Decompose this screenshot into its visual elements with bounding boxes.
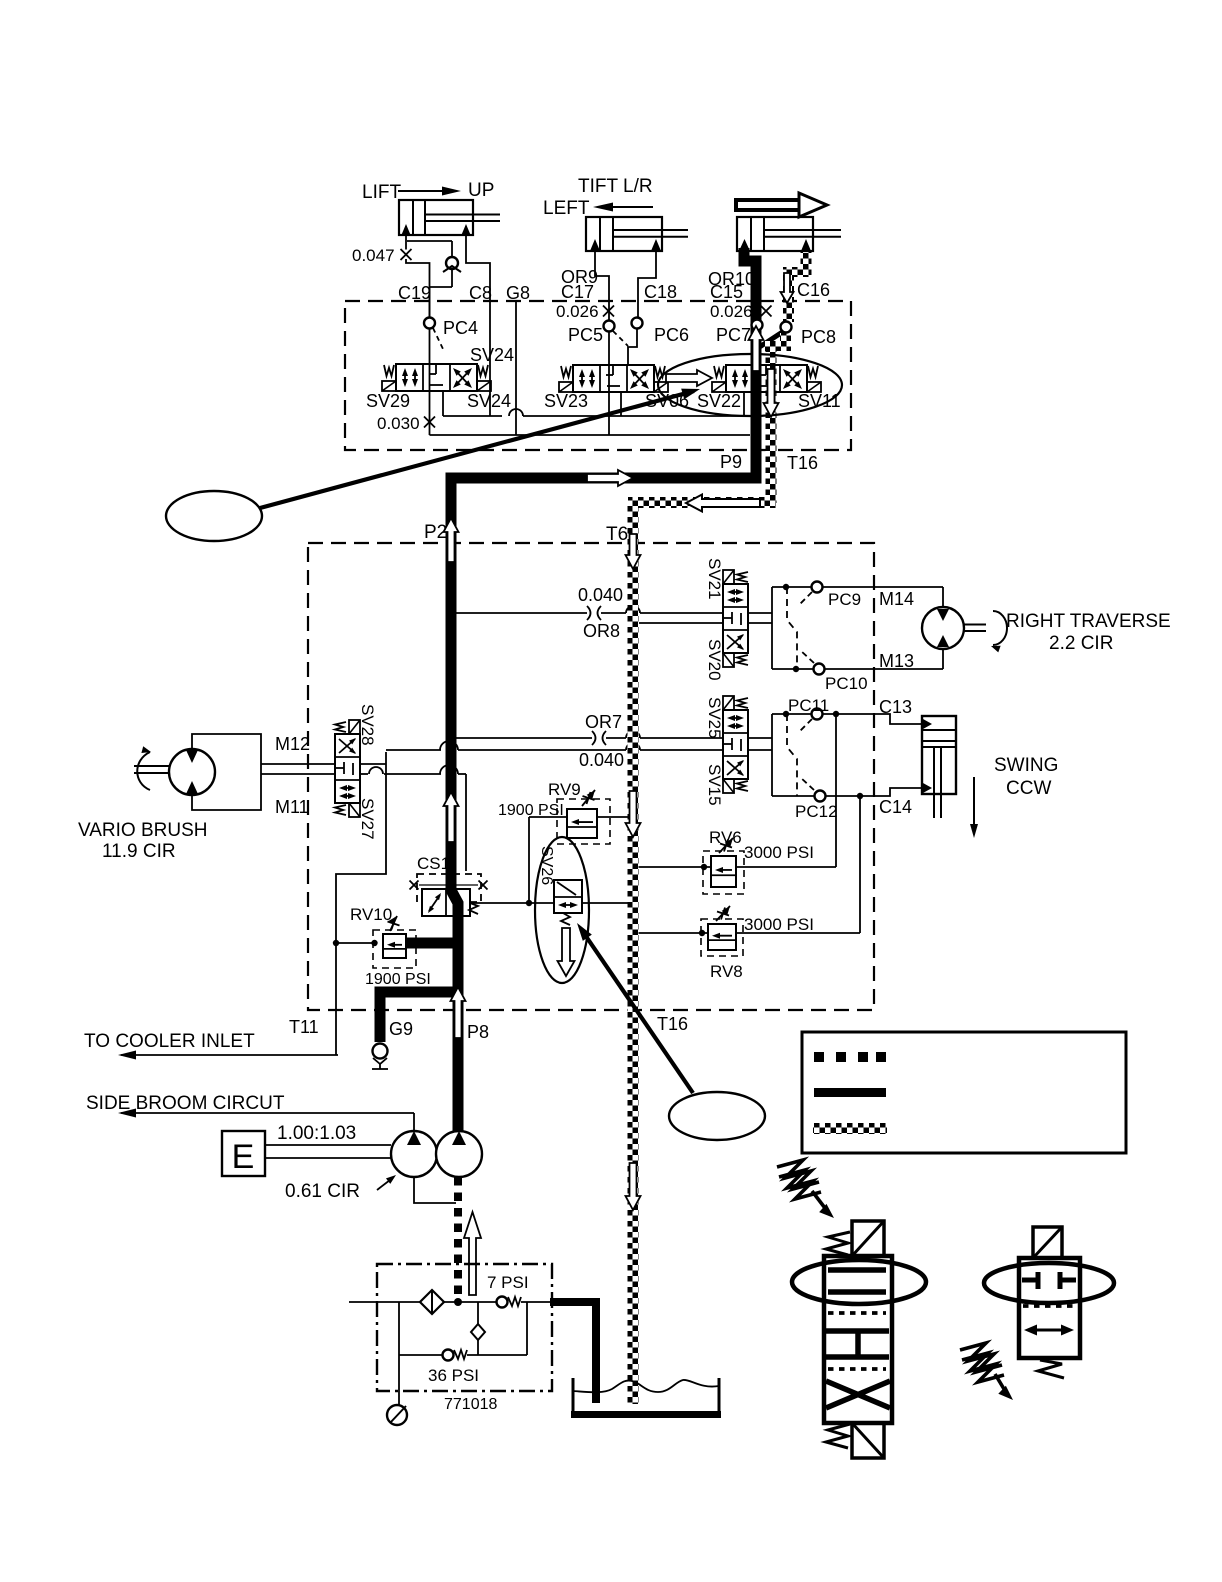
svg-text:P8: P8 <box>467 1022 489 1042</box>
flow arrow P2 up <box>444 518 459 562</box>
svg-text:C15: C15 <box>710 282 743 302</box>
solenoid valve SV22/SV11 <box>726 365 807 392</box>
svg-text:2.2 CIR: 2.2 CIR <box>1049 633 1113 654</box>
svg-text:3000 PSI: 3000 PSI <box>744 843 814 862</box>
wire P2 to OR8 <box>456 612 587 614</box>
pointer 0.61 CIR <box>377 1180 390 1190</box>
solenoid valve SV28/SV27 <box>335 734 360 803</box>
svg-text:T11: T11 <box>289 1017 319 1037</box>
tank reservoir <box>572 1378 575 1416</box>
svg-text:T16: T16 <box>787 453 818 473</box>
svg-text:0.040: 0.040 <box>578 585 623 605</box>
svg-text:C18: C18 <box>644 282 677 302</box>
wire SV21 to PC9/PC10 block <box>748 612 772 614</box>
gauge G9 <box>373 1044 388 1059</box>
motor VARIO BRUSH <box>169 749 215 795</box>
wire M14 line <box>772 586 943 588</box>
svg-text:36 PSI: 36 PSI <box>428 1366 479 1385</box>
wire PC block left vertical (traverse) <box>771 587 773 669</box>
wire RV9 right to T6 <box>597 816 633 818</box>
wire RV9 drain drop <box>528 817 530 903</box>
callout ellipse lower <box>669 1092 765 1140</box>
cylinder sweep (right) <box>737 217 813 251</box>
node suction junction <box>454 1298 462 1306</box>
wire PC5 down through SV23 to gallery <box>608 332 610 436</box>
thick filter outlet to tank <box>550 1302 596 1403</box>
lightning bolt lower <box>960 1343 1002 1372</box>
bypass line 36 PSI <box>399 1354 443 1356</box>
svg-text:SV24: SV24 <box>467 391 511 411</box>
filter <box>420 1290 444 1314</box>
manifold pressure gallery <box>430 434 751 436</box>
svg-text:OR7: OR7 <box>585 712 622 732</box>
svg-text:C13: C13 <box>879 697 912 717</box>
svg-text:SV15: SV15 <box>705 764 724 806</box>
wire PC4 down through SV24 to gallery <box>429 329 431 436</box>
ellipse highlight sample valve large <box>792 1260 926 1304</box>
pump 2 (main) <box>436 1131 482 1177</box>
check valve PC8 <box>781 322 792 333</box>
sample valve small (detent) <box>1033 1227 1062 1258</box>
svg-text:RV6: RV6 <box>709 828 742 847</box>
orifice OR8 0.040 <box>587 606 591 620</box>
thick G9 branch <box>380 992 458 1042</box>
svg-text:OR8: OR8 <box>583 621 620 641</box>
wire cylinder2 left port to C17 <box>595 251 609 320</box>
svg-text:TO COOLER INLET: TO COOLER INLET <box>84 1031 255 1052</box>
svg-text:1900 PSI: 1900 PSI <box>498 802 564 819</box>
svg-text:PC10: PC10 <box>825 674 868 693</box>
legend pilot line sample <box>814 1052 824 1062</box>
relief valve RV10 <box>383 934 406 958</box>
wire C19 cylinder1 left port to orifice 0.047 <box>405 236 407 250</box>
wire SV28 return line to SV25 <box>386 749 441 751</box>
svg-text:SV11: SV11 <box>798 391 841 411</box>
svg-text:RV8: RV8 <box>710 962 743 981</box>
wire SIDE BROOM tap <box>121 1112 414 1114</box>
checkered line PC8 to manifold exit <box>780 333 791 346</box>
wire vario motor M12 line <box>261 763 335 765</box>
flow arrow P9 up <box>749 326 764 371</box>
callout pointer to SV22 <box>260 391 694 508</box>
svg-text:0.030: 0.030 <box>377 414 420 433</box>
svg-text:PC6: PC6 <box>654 325 689 345</box>
wire PC6 pilot to SV23 <box>628 329 637 366</box>
orifice OR7 0.040 <box>592 731 596 745</box>
svg-text:SV24: SV24 <box>470 345 514 365</box>
svg-text:TIFT L/R: TIFT L/R <box>578 176 653 197</box>
port arrow cylinder2 left <box>590 239 600 251</box>
thick main pressure line P9/P2/P8 <box>451 248 756 1133</box>
node PC10 junction <box>793 666 799 672</box>
legend pressure line sample <box>814 1088 886 1097</box>
manifold assembly dashed enclosure (valve block SV29..SV11) <box>345 301 851 450</box>
svg-text:0.61 CIR: 0.61 CIR <box>285 1181 360 1202</box>
ellipse highlight SV22/SV11 <box>658 354 842 416</box>
wire OR8 to SV21 with hop over T6 <box>601 612 626 614</box>
port arrow cylinder1 right <box>461 224 471 236</box>
wire M13 line <box>772 668 943 670</box>
node RV9 drain junction <box>526 900 532 906</box>
wire RV8 line from T6 <box>638 932 708 934</box>
port arrow cylinder2 right <box>651 239 661 251</box>
wire side broom drop to pump1 <box>413 1113 415 1131</box>
check valve 36 PSI <box>443 1350 454 1361</box>
svg-text:1900 PSI: 1900 PSI <box>365 971 431 988</box>
check valve PC4 <box>424 318 435 329</box>
wire SV23 drain to tank gallery <box>620 392 622 416</box>
svg-text:M14: M14 <box>879 589 914 609</box>
node RV8 left <box>699 930 705 936</box>
node C13 junction <box>783 711 789 717</box>
wire OR7 to SV25 with hop over T6 <box>606 737 626 739</box>
wire C14 line <box>772 788 922 796</box>
svg-text:CCW: CCW <box>1006 778 1051 799</box>
thick PC8 link <box>758 331 784 348</box>
svg-text:M11: M11 <box>275 797 309 817</box>
svg-text:SV26: SV26 <box>538 846 555 885</box>
flow arrow tank return down <box>626 1163 641 1210</box>
wire vario motor M11 line <box>261 773 335 775</box>
node C13 to RV6 junction <box>833 711 839 717</box>
svg-text:SWING: SWING <box>994 755 1058 776</box>
svg-text:M12: M12 <box>275 734 310 754</box>
solenoid valve SV21/SV20 <box>723 584 748 653</box>
port arrow cylinder3 left <box>739 239 750 251</box>
orifice 0.026 on C17 <box>603 306 614 317</box>
svg-text:RIGHT TRAVERSE: RIGHT TRAVERSE <box>1006 611 1171 632</box>
wire pump1 case drain to suction <box>414 1177 456 1203</box>
svg-text:0.026: 0.026 <box>556 302 599 321</box>
check valve PC6 <box>632 318 643 329</box>
shaft vario <box>134 765 169 767</box>
svg-text:PC8: PC8 <box>801 327 836 347</box>
motor RIGHT TRAVERSE <box>922 607 964 649</box>
wire cylinder2 right port to C18 <box>638 251 656 317</box>
gearbox E <box>222 1131 265 1176</box>
check valve PC7 <box>752 320 763 331</box>
checkered return header to T6 <box>628 497 776 508</box>
wire RV6 line from T6 <box>638 866 711 868</box>
legend box <box>802 1032 1126 1153</box>
wire SV28 branch down to cooler tie <box>336 752 386 1055</box>
node RV10 tee <box>333 940 339 946</box>
wire G8 drop <box>515 301 517 435</box>
relief valve RV6 <box>711 856 736 887</box>
wire C19 into manifold to PC4 <box>429 287 431 318</box>
svg-text:G9: G9 <box>389 1019 413 1039</box>
wire C13 branch down to RV6 <box>835 714 837 867</box>
wire C13 line <box>772 714 922 724</box>
flow arrow T6 down <box>626 534 641 569</box>
pump 1 (side broom) <box>391 1131 437 1177</box>
legend return line sample <box>813 1123 887 1134</box>
relief valve RV9 <box>567 809 597 838</box>
orifice 0.047 <box>401 249 412 260</box>
svg-text:E: E <box>232 1138 255 1176</box>
motor frame vario <box>192 734 261 810</box>
check valve PC10 <box>814 664 825 675</box>
svg-text:C8: C8 <box>469 283 492 303</box>
svg-text:C17: C17 <box>561 282 594 302</box>
ellipse highlight sample valve small <box>984 1263 1114 1303</box>
svg-text:SV23: SV23 <box>544 391 588 411</box>
wire P2 to OR7 <box>456 737 592 739</box>
svg-text:PC4: PC4 <box>443 318 478 338</box>
wire filter to check <box>444 1301 497 1303</box>
wire RV8 to C14 branch <box>736 932 860 934</box>
svg-text:P2: P2 <box>424 522 447 543</box>
svg-text:T6: T6 <box>606 524 628 545</box>
wire check to outlet <box>521 1301 552 1303</box>
flow arrow T16 down (manifold) <box>764 369 779 417</box>
wire filter left drain <box>398 1302 400 1405</box>
svg-text:G8: G8 <box>506 283 530 303</box>
svg-text:C16: C16 <box>797 280 830 300</box>
wire CS1 out to SV26 and T6 <box>470 902 633 904</box>
cylinder SWING <box>922 716 956 794</box>
thick arrow above cylinder3 <box>734 198 799 212</box>
svg-text:0.040: 0.040 <box>579 750 624 770</box>
wire CS1 pilot drop <box>465 774 467 871</box>
flow arrow return left (checkered) <box>686 495 760 512</box>
svg-text:SV22: SV22 <box>697 391 741 411</box>
flow arrow SV26 vent <box>558 928 575 976</box>
check valve PC9 <box>812 582 823 593</box>
suction line dotted <box>454 1177 462 1299</box>
flow arrow thick line right <box>587 470 633 486</box>
solenoid valve SV29/SV24 <box>396 364 477 391</box>
orifice 0.030 on PC4 drain <box>424 417 435 428</box>
sample valve large (solenoid operated) <box>852 1221 884 1256</box>
wire SV25 to PC11/PC12 block <box>748 737 772 739</box>
wire motor frame <box>942 587 944 608</box>
wire orifice to C19 line <box>406 259 430 318</box>
solenoid valve SV23/SV06 <box>573 365 654 392</box>
svg-text:PC12: PC12 <box>795 802 838 821</box>
svg-text:M13: M13 <box>879 651 914 671</box>
wire TO COOLER INLET <box>121 1054 338 1056</box>
svg-text:771018: 771018 <box>444 1396 497 1413</box>
wire cylinder1 right port C8 <box>466 236 490 416</box>
svg-text:SV21: SV21 <box>705 558 724 600</box>
flow arrow P8 up <box>451 987 466 1038</box>
svg-text:0.026: 0.026 <box>710 302 753 321</box>
pilot dashes PC9/PC10 <box>787 587 797 669</box>
svg-text:P9: P9 <box>720 452 742 472</box>
svg-text:SV27: SV27 <box>358 798 377 840</box>
flow arrow C16 down <box>781 273 794 303</box>
check valve PC12 <box>815 791 826 802</box>
lightning bolt upper <box>777 1160 819 1189</box>
wire SV27 output with hop <box>359 763 386 765</box>
node M14 junction <box>783 584 789 590</box>
svg-text:3000 PSI: 3000 PSI <box>744 915 814 934</box>
manifold tank gallery <box>443 415 502 417</box>
callout pointer to SV26 <box>581 929 693 1093</box>
orifice 0.026 on C15 (beside P9 line) <box>761 306 772 317</box>
svg-text:0.047: 0.047 <box>352 246 395 265</box>
checkered line cylinder3 right port <box>801 250 812 272</box>
svg-text:RV10: RV10 <box>350 905 392 924</box>
svg-text:CS1: CS1 <box>417 854 450 873</box>
thick RV10 link <box>406 938 458 949</box>
gauge test point <box>387 1405 407 1425</box>
check valve 7 PSI <box>497 1297 508 1308</box>
flow divider CS1 <box>417 874 481 902</box>
flow arrow OR7 return down <box>626 791 641 837</box>
svg-text:UP: UP <box>468 180 494 201</box>
filter unit dash-dot enclosure <box>377 1264 552 1391</box>
cylinder LIFT <box>399 200 473 235</box>
svg-text:T16: T16 <box>657 1014 688 1034</box>
svg-text:PC11: PC11 <box>788 696 829 715</box>
svg-text:PC9: PC9 <box>828 590 861 609</box>
thick line through CS1 <box>451 884 458 918</box>
svg-text:VARIO BRUSH: VARIO BRUSH <box>78 820 208 841</box>
svg-text:C19: C19 <box>398 283 431 303</box>
wire T6 branch to SV21 <box>639 622 723 624</box>
svg-text:RV9: RV9 <box>548 780 581 799</box>
arrow swing direction down <box>973 777 975 826</box>
svg-text:LEFT: LEFT <box>543 198 590 219</box>
svg-text:11.9 CIR: 11.9 CIR <box>102 841 176 862</box>
wire PC block left vertical (swing) <box>771 714 773 796</box>
pilot dashes PC11/PC12 <box>787 714 797 796</box>
wire filter inlet <box>349 1301 421 1303</box>
relief valve RV8 <box>708 924 736 950</box>
svg-text:SV29: SV29 <box>366 391 410 411</box>
flow arrow into SV22 <box>666 370 712 386</box>
check valve PC5 <box>604 321 615 332</box>
svg-text:PC7: PC7 <box>716 325 751 345</box>
check ball symbol <box>471 1324 485 1340</box>
svg-text:SV20: SV20 <box>705 639 724 681</box>
checkered T6/T16 main return <box>628 503 639 1404</box>
callout ellipse upper-left <box>166 491 262 541</box>
check valve PC11 <box>812 709 823 720</box>
wire C14 branch down to RV8 <box>859 796 861 933</box>
solenoid valve SV25/SV15 <box>723 710 748 779</box>
svg-text:1.00:1.03: 1.00:1.03 <box>277 1123 356 1144</box>
ellipse highlight SV26 <box>535 837 589 983</box>
svg-text:SV25: SV25 <box>705 697 724 739</box>
port arrow cylinder1 left <box>401 224 411 236</box>
wire RV6 to C13 branch <box>736 866 836 868</box>
check valve cylinder1 bypass <box>446 257 458 269</box>
wire RV9 left line <box>529 816 567 818</box>
main control block dashed enclosure T11/T16 <box>308 543 874 1010</box>
wire RV10 tee <box>336 942 374 944</box>
solenoid cartridge SV26 <box>554 880 582 913</box>
cylinder TIFT L/R <box>586 217 662 251</box>
node C14 to RV8 junction <box>857 793 863 799</box>
flow arrow suction up <box>464 1212 481 1295</box>
svg-text:SV28: SV28 <box>358 704 377 746</box>
svg-text:PC5: PC5 <box>568 325 603 345</box>
flow arrow P2 mid up <box>444 792 459 842</box>
svg-text:SIDE BROOM CIRCUT: SIDE BROOM CIRCUT <box>86 1093 285 1114</box>
wire SV22 drain <box>743 393 745 416</box>
port arrow cylinder3 right <box>801 239 811 251</box>
wire internal drop <box>477 1302 479 1324</box>
wire bypass check around orifice <box>407 240 452 242</box>
svg-text:7 PSI: 7 PSI <box>487 1273 529 1292</box>
svg-text:LIFT: LIFT <box>362 182 401 203</box>
wire check valve to C19 node <box>451 269 453 287</box>
svg-text:C14: C14 <box>879 797 912 817</box>
